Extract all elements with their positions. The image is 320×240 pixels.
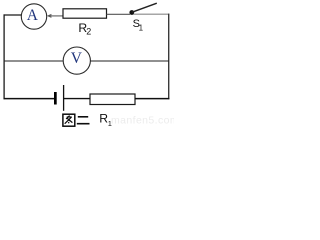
wire left vertical — [3, 14, 5, 99]
battery short plate — [54, 92, 57, 105]
svg-text:manfen5.com: manfen5.com — [111, 115, 174, 127]
wire R1 to bottom-right corner — [135, 98, 169, 100]
wire middle right — [90, 60, 169, 62]
svg-text:V: V — [71, 50, 83, 67]
resistor R2 — [63, 9, 107, 18]
svg-text:A: A — [27, 7, 39, 24]
ammeter A — [21, 4, 46, 29]
battery long plate — [63, 85, 65, 111]
wire bottom left — [4, 98, 55, 100]
junction dot — [129, 10, 134, 15]
wire junction to top-right corner — [134, 13, 170, 15]
switch S1 blade — [132, 3, 157, 12]
wire arrow to ammeter — [47, 14, 52, 18]
wire R2 to junction — [107, 13, 131, 15]
voltmeter V — [63, 47, 90, 74]
wire battery to R1 — [64, 98, 91, 100]
svg-text:2: 2 — [86, 27, 91, 37]
caption glyph 图 — [63, 114, 75, 126]
wire top-left stub — [4, 14, 22, 16]
wire right vertical — [168, 14, 170, 100]
wire middle left — [4, 60, 64, 62]
svg-text:1: 1 — [139, 23, 144, 32]
caption glyph 二 — [77, 117, 90, 124]
resistor R1 — [90, 94, 135, 105]
